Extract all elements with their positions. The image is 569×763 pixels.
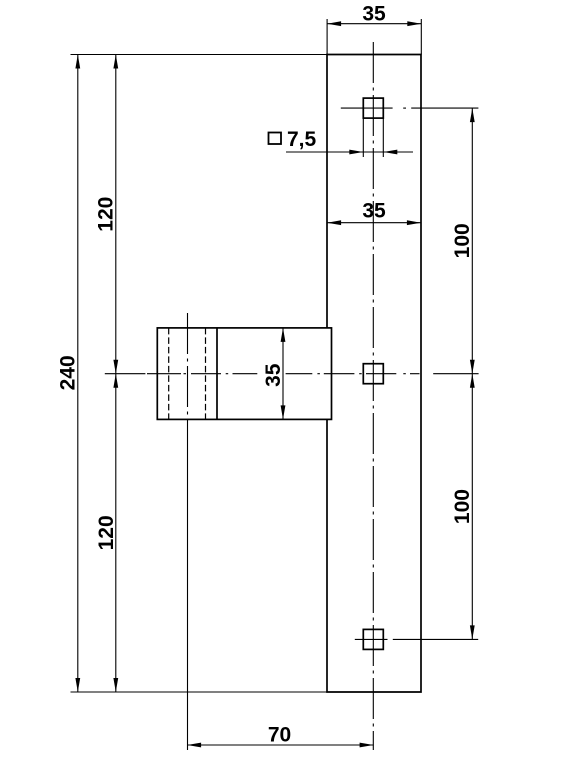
middle square hole 7.5	[363, 364, 383, 384]
top extension line (left of bar top edge)	[71, 54, 328, 56]
svg-text:70: 70	[268, 724, 291, 747]
pin centerline (vertical dash-dot)	[187, 313, 189, 419]
svg-text:240: 240	[56, 355, 79, 390]
dimension 35 (top, bar width)	[327, 3, 421, 55]
top square horizontal centerline	[341, 107, 406, 109]
middle horizontal centerline left tick (120/120 junction)	[105, 373, 146, 375]
svg-text:35: 35	[362, 3, 386, 26]
middle centerline right extension (for 100 dims)	[433, 373, 478, 375]
bottom square hole 7.5	[363, 629, 383, 649]
bottom extension line (left of bar bottom edge)	[71, 691, 328, 693]
knuckle edge line	[216, 328, 218, 420]
dimension 35 (block height, vertical with arrows inside block)	[262, 328, 285, 420]
dimension 70 (bottom)	[187, 724, 374, 748]
dimension 35 (bar width, mid)	[327, 199, 421, 225]
hidden line (pin hole left)	[168, 328, 170, 420]
dimension 240 (left, overall)	[56, 55, 80, 693]
svg-text:100: 100	[451, 489, 474, 524]
bar centerline (vertical dash-dot through all squares)	[372, 42, 374, 750]
extension line from pin axis down to 70 dimension	[187, 419, 189, 750]
dimension 120 (lower, left)	[95, 374, 118, 692]
top square hole 7.5	[363, 98, 383, 118]
plate outline (vertical bar, front view)	[327, 55, 421, 693]
svg-text:120: 120	[95, 515, 118, 550]
dimension 7,5 (square hole size, leader)	[269, 118, 414, 157]
top square centerline right extension (for 100 dim)	[411, 107, 478, 109]
dimension 100 (upper, right)	[451, 108, 475, 374]
svg-text:35: 35	[262, 363, 285, 387]
bottom square horizontal centerline	[355, 638, 388, 640]
svg-text:100: 100	[451, 223, 474, 258]
svg-text:35: 35	[362, 199, 386, 222]
dimension 100 (lower, right)	[451, 374, 475, 640]
hinge block (knuckle, side projection)	[157, 328, 331, 420]
bottom centerline right extension (for 100 dim)	[393, 638, 478, 640]
dimension 120 (upper, left)	[95, 55, 119, 374]
svg-text:120: 120	[95, 197, 118, 232]
middle horizontal centerline (dash-dot across block and bar)	[147, 373, 420, 375]
hidden line (pin hole right)	[205, 328, 207, 420]
svg-text:7,5: 7,5	[287, 128, 317, 151]
